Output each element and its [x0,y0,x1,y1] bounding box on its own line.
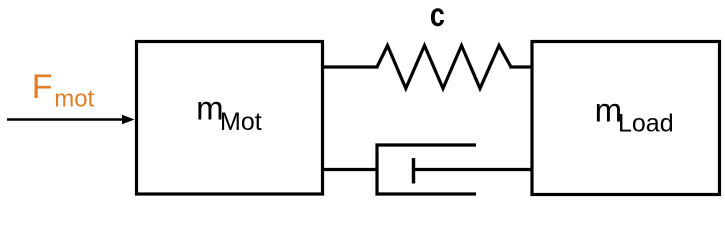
mass block mLoad [532,42,720,195]
wire mMot to spring [324,65,379,68]
damper piston [412,158,415,184]
svg-text:c: c [430,0,445,34]
svg-text:mot: mot [54,86,94,113]
svg-text:Mot: Mot [220,108,262,136]
wire spring to mLoad [510,65,533,68]
label mLoad [595,91,674,137]
label Fmot [32,68,95,113]
mass block mMot [137,42,323,195]
force arrow Fmot [7,115,135,125]
damper cylinder [377,145,476,194]
label mMot [196,89,262,136]
wire mMot to damper cylinder [324,168,378,171]
svg-text:F: F [32,68,53,106]
damper piston rod to mLoad [414,168,533,171]
spring c [377,46,511,89]
svg-text:Load: Load [618,110,674,138]
